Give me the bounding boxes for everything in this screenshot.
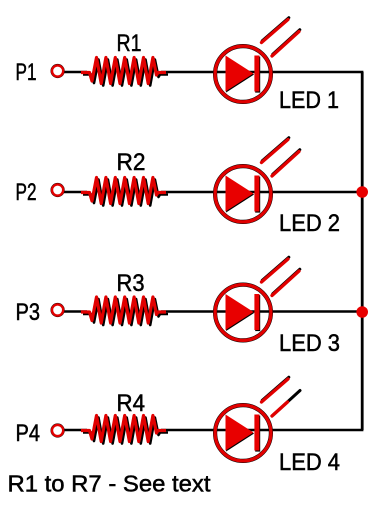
svg-text:LED 1: LED 1 <box>279 87 339 114</box>
svg-text:R4: R4 <box>117 390 146 417</box>
svg-text:R1: R1 <box>117 30 142 57</box>
svg-text:LED 4: LED 4 <box>279 449 340 476</box>
svg-text:R1 to R7 - See text: R1 to R7 - See text <box>8 471 212 497</box>
svg-text:P2: P2 <box>16 179 37 206</box>
svg-text:R3: R3 <box>117 270 145 297</box>
svg-text:LED 2: LED 2 <box>279 210 340 237</box>
svg-text:P4: P4 <box>16 420 41 447</box>
svg-text:LED 3: LED 3 <box>279 330 340 357</box>
svg-text:P3: P3 <box>16 299 41 326</box>
svg-text:P1: P1 <box>16 59 37 86</box>
svg-text:R2: R2 <box>117 149 146 176</box>
